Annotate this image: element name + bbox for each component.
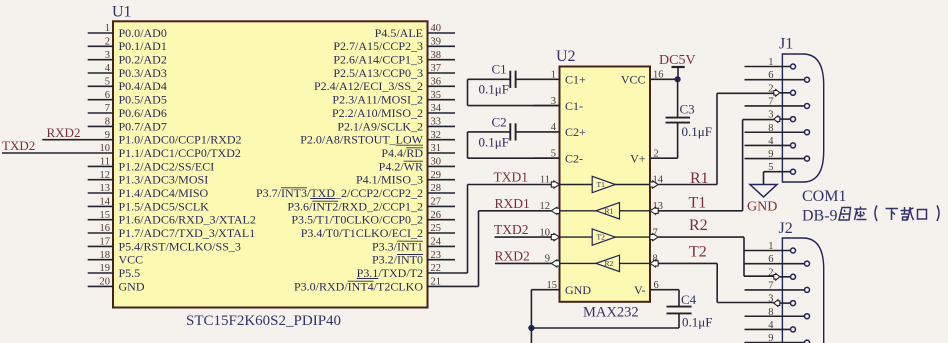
svg-text:P4.5/ALE: P4.5/ALE <box>375 26 423 40</box>
svg-text:1: 1 <box>768 241 773 252</box>
svg-text:2: 2 <box>768 267 773 278</box>
J2 pin 1 <box>745 250 791 252</box>
J1 pin 7 <box>745 105 805 107</box>
svg-text:24: 24 <box>431 237 442 248</box>
svg-text:P0.6/AD6: P0.6/AD6 <box>119 106 167 120</box>
U1 pin 20 (GND) <box>88 285 113 287</box>
svg-text:P0.4/AD4: P0.4/AD4 <box>119 79 167 93</box>
svg-text:15: 15 <box>100 210 111 221</box>
svg-text:P3.1/TXD/T2: P3.1/TXD/T2 <box>357 266 423 280</box>
svg-text:1: 1 <box>551 70 556 81</box>
J1 pin 8 <box>745 131 805 133</box>
svg-text:P5.5: P5.5 <box>119 266 141 280</box>
svg-text:38: 38 <box>431 50 442 61</box>
glyph fullwidth ) <box>937 206 939 222</box>
svg-text:C2+: C2+ <box>565 125 586 139</box>
glyph xia <box>886 209 899 221</box>
svg-text:P3.6/INT2/RXD_2/CCP1_2: P3.6/INT2/RXD_2/CCP1_2 <box>287 199 423 213</box>
U1 pin 25 <box>428 232 456 234</box>
svg-text:29: 29 <box>431 170 442 181</box>
U1 pin 34 <box>428 112 456 114</box>
svg-text:P3.4/T0/T1CLKO/ECI_2: P3.4/T0/T1CLKO/ECI_2 <box>301 226 423 240</box>
svg-text:4: 4 <box>768 320 774 331</box>
U1 pin 40 <box>428 32 456 34</box>
J2 pin 2 <box>780 276 791 278</box>
svg-text:RXD2: RXD2 <box>495 249 530 264</box>
U1 pin 10 (P1.1/ADC1/CCP0/TXD2) <box>2 152 113 154</box>
svg-text:GND: GND <box>747 200 777 215</box>
U1 pin 19 (P5.5) <box>88 272 113 274</box>
wire R1: U2 pin14 to J1 pin2 <box>658 184 717 186</box>
wire R2: U2 pin7 to J2 pin2 <box>658 236 744 238</box>
svg-text:P2.5/A13/CCP0_3: P2.5/A13/CCP0_3 <box>333 66 423 80</box>
svg-text:P2.0/A8/RSTOUT_LOW: P2.0/A8/RSTOUT_LOW <box>300 133 423 147</box>
J1 pin 9 <box>745 158 805 160</box>
svg-text:6: 6 <box>768 70 773 81</box>
capacitor C2 <box>468 131 511 133</box>
svg-text:4: 4 <box>551 122 557 133</box>
J1 pin 1 <box>745 66 791 68</box>
svg-text:31: 31 <box>431 143 442 154</box>
U1 pin 18 (VCC) <box>88 259 113 261</box>
wire TXD2 stub at U2 pin 10 <box>495 236 552 238</box>
U1 pin 33 <box>428 125 456 127</box>
svg-text:37: 37 <box>431 63 442 74</box>
svg-text:7: 7 <box>105 103 110 114</box>
svg-text:C1-: C1- <box>565 99 583 113</box>
svg-text:P1.2/ADC2/SS/ECI: P1.2/ADC2/SS/ECI <box>119 159 215 173</box>
J1 pin 5 <box>764 171 791 173</box>
U2 internal buffer T2 <box>560 236 651 238</box>
U1 pin 3 (P0.2/AD2) <box>88 59 113 61</box>
svg-text:P3.5/T1/T0CLKO/CCP0_2: P3.5/T1/T0CLKO/CCP0_2 <box>291 213 423 227</box>
U1 pin 9 (P1.0/ADC0/CCP1/RXD2) <box>42 139 113 141</box>
svg-text:V-: V- <box>634 283 646 297</box>
svg-text:7: 7 <box>768 280 773 291</box>
svg-text:P1.7/ADC7/TXD_3/XTAL1: P1.7/ADC7/TXD_3/XTAL1 <box>119 226 256 240</box>
svg-text:C1+: C1+ <box>565 73 586 87</box>
svg-text:5: 5 <box>768 162 773 173</box>
svg-text:6: 6 <box>105 90 110 101</box>
U1 pin 11 (P1.2/ADC2/SS/ECI) <box>88 165 113 167</box>
svg-text:25: 25 <box>431 223 442 234</box>
svg-text:6: 6 <box>768 254 773 265</box>
svg-text:C2: C2 <box>492 115 507 130</box>
U1 pin 13 (P1.4/ADC4/MISO) <box>88 192 113 194</box>
svg-text:34: 34 <box>431 103 442 114</box>
svg-text:COM1: COM1 <box>802 188 846 205</box>
glyph zuo <box>855 207 867 221</box>
svg-text:26: 26 <box>431 210 442 221</box>
U1 pin 38 <box>428 59 456 61</box>
svg-text:STC15F2K60S2_PDIP40: STC15F2K60S2_PDIP40 <box>186 313 341 329</box>
wire T1: U2 pin13 to J1 pin3 <box>658 210 742 212</box>
svg-text:RXD2: RXD2 <box>47 125 81 140</box>
power symbol DC5V <box>672 66 685 68</box>
svg-text:4: 4 <box>105 63 111 74</box>
svg-text:C2-: C2- <box>565 151 583 165</box>
U1 pin 23 <box>428 259 456 261</box>
svg-text:33: 33 <box>431 117 442 128</box>
svg-text:32: 32 <box>431 130 442 141</box>
U1 pin 8 (P0.7/AD7) <box>88 125 113 127</box>
U2 internal buffer R2 <box>560 262 651 264</box>
svg-text:19: 19 <box>100 263 111 274</box>
capacitor C3 <box>677 79 679 117</box>
U1 pin 26 <box>428 219 456 221</box>
svg-text:9: 9 <box>105 130 110 141</box>
svg-text:0.1μF: 0.1μF <box>682 124 712 139</box>
wire C2 loop <box>467 132 469 158</box>
wire C1 loop <box>467 79 469 105</box>
svg-text:P0.5/AD5: P0.5/AD5 <box>119 93 167 107</box>
wire TXD1: U1 pin 22 to U2 pin 11 <box>428 272 468 274</box>
svg-text:12: 12 <box>100 170 111 181</box>
J2 pin 7 <box>745 289 805 291</box>
svg-text:14: 14 <box>100 197 111 208</box>
svg-text:8: 8 <box>768 123 773 134</box>
J2 pin 4 <box>745 328 791 330</box>
U1 pin 32 <box>428 139 456 141</box>
svg-text:18: 18 <box>100 250 111 261</box>
glyph zai <box>901 207 914 220</box>
wire T2: U2 pin8 to J2 pin3 <box>658 262 717 264</box>
svg-text:20: 20 <box>100 277 111 288</box>
J1 pin 2 <box>780 92 791 94</box>
svg-text:P0.3/AD3: P0.3/AD3 <box>119 66 167 80</box>
svg-text:P0.0/AD0: P0.0/AD0 <box>119 26 167 40</box>
U1 pin 6 (P0.5/AD5) <box>88 99 113 101</box>
svg-text:DB-9: DB-9 <box>802 208 838 225</box>
svg-text:0.1μF: 0.1μF <box>479 82 509 97</box>
IC U2 MAX232 body <box>560 67 651 302</box>
J2 pin 8 <box>745 315 805 317</box>
svg-text:VCC: VCC <box>621 73 646 87</box>
svg-text:28: 28 <box>431 183 442 194</box>
svg-text:36: 36 <box>431 77 442 88</box>
U1 pin 28 <box>428 192 456 194</box>
U1 pin 15 (P1.6/ADC6/RXD_3/XTAL2) <box>88 219 113 221</box>
U1 pin 30 <box>428 165 456 167</box>
svg-text:39: 39 <box>431 37 442 48</box>
connector J1 DB-9 body <box>782 54 823 182</box>
U2 pin 4 <box>534 131 560 133</box>
U1 pin 7 (P0.6/AD6) <box>88 112 113 114</box>
svg-text:U2: U2 <box>556 48 576 65</box>
svg-text:P0.7/AD7: P0.7/AD7 <box>119 119 167 133</box>
J1 pin 3 <box>780 118 791 120</box>
svg-text:10: 10 <box>100 143 111 154</box>
svg-text:C3: C3 <box>680 102 695 117</box>
svg-text:3: 3 <box>768 110 773 121</box>
U1 pin 2 (P0.1/AD1) <box>88 45 113 47</box>
svg-text:TXD2: TXD2 <box>2 138 35 153</box>
svg-text:30: 30 <box>431 157 442 168</box>
svg-text:R2: R2 <box>605 259 614 268</box>
svg-text:MAX232: MAX232 <box>583 305 639 321</box>
svg-text:P5.4/RST/MCLKO/SS_3: P5.4/RST/MCLKO/SS_3 <box>119 239 241 253</box>
svg-text:4: 4 <box>768 136 774 147</box>
svg-text:P2.4/A12/ECI_3/SS_2: P2.4/A12/ECI_3/SS_2 <box>314 79 423 93</box>
svg-text:C4: C4 <box>681 292 697 307</box>
svg-text:3: 3 <box>105 50 110 61</box>
svg-text:5: 5 <box>105 77 110 88</box>
svg-text:9: 9 <box>768 333 773 343</box>
svg-text:P1.3/ADC3/MOSI: P1.3/ADC3/MOSI <box>119 173 209 187</box>
svg-text:T1: T1 <box>597 180 606 189</box>
svg-text:40: 40 <box>431 23 442 34</box>
svg-text:27: 27 <box>431 197 442 208</box>
svg-text:P2.2/A10/MISO_2: P2.2/A10/MISO_2 <box>332 106 423 120</box>
svg-text:P0.1/AD1: P0.1/AD1 <box>119 39 167 53</box>
svg-text:T1: T1 <box>689 195 707 212</box>
svg-text:7: 7 <box>768 96 773 107</box>
svg-text:J1: J1 <box>779 36 793 53</box>
svg-text:GND: GND <box>119 279 145 293</box>
svg-text:16: 16 <box>100 223 111 234</box>
svg-text:TXD1: TXD1 <box>494 170 529 185</box>
svg-text:P0.2/AD2: P0.2/AD2 <box>119 53 167 67</box>
svg-text:13: 13 <box>100 183 111 194</box>
wire U2 pin15 GND down <box>531 289 559 291</box>
svg-text:0.1μF: 0.1μF <box>479 135 509 150</box>
svg-text:35: 35 <box>431 90 442 101</box>
U1 pin 12 (P1.3/ADC3/MOSI) <box>88 179 113 181</box>
svg-text:U1: U1 <box>112 4 132 21</box>
svg-text:8: 8 <box>105 117 110 128</box>
svg-text:1: 1 <box>105 23 110 34</box>
capacitor C4 <box>650 289 679 291</box>
svg-text:VCC: VCC <box>119 253 144 267</box>
svg-text:P1.4/ADC4/MISO: P1.4/ADC4/MISO <box>119 186 209 200</box>
svg-text:17: 17 <box>100 237 111 248</box>
J1 pin 4 <box>745 144 791 146</box>
U2 internal buffer T1 <box>560 184 651 186</box>
glyph kou <box>918 210 927 220</box>
svg-text:R2: R2 <box>689 217 708 234</box>
svg-text:9: 9 <box>768 149 773 160</box>
glyph fullwidth ( <box>875 206 877 222</box>
U1 pin 27 <box>428 205 456 207</box>
svg-text:GND: GND <box>565 283 591 297</box>
wire RXD1: U1 pin 21 to U2 pin 12 <box>428 285 479 287</box>
U2 pin 3 <box>534 105 560 107</box>
IC U1 STC15F2K60S2_PDIP40 body <box>113 21 428 307</box>
J2 pin 3 <box>780 302 791 304</box>
U1 pin 4 (P0.3/AD3) <box>88 72 113 74</box>
svg-text:P1.6/ADC6/RXD_3/XTAL2: P1.6/ADC6/RXD_3/XTAL2 <box>119 213 256 227</box>
glyph mu <box>839 208 851 221</box>
svg-text:2: 2 <box>768 83 773 94</box>
U2 pin 1 <box>534 78 560 80</box>
U2 pin 5 <box>534 157 560 159</box>
svg-text:P4.1/MISO_3: P4.1/MISO_3 <box>356 173 423 187</box>
capacitor C1 <box>468 78 511 80</box>
U1 pin 39 <box>428 45 456 47</box>
svg-text:P2.3/A11/MOSI_2: P2.3/A11/MOSI_2 <box>332 93 423 107</box>
U1 pin 24 <box>428 245 456 247</box>
svg-text:0.1μF: 0.1μF <box>682 315 712 330</box>
J2 pin 6 <box>745 263 805 265</box>
U1 pin 5 (P0.4/AD4) <box>88 85 113 87</box>
U1 pin 14 (P1.5/ADC5/SCLK) <box>88 205 113 207</box>
svg-text:DC5V: DC5V <box>659 53 696 68</box>
svg-text:J2: J2 <box>779 220 793 237</box>
connector J2 DB-9 body <box>782 238 823 343</box>
wire GND rail to C4 <box>531 327 679 329</box>
U1 pin 35 <box>428 99 456 101</box>
wire RXD2 stub at U2 pin 9 <box>495 262 551 264</box>
svg-text:RXD1: RXD1 <box>495 196 530 211</box>
svg-text:8: 8 <box>768 307 773 318</box>
svg-text:P1.5/ADC5/SCLK: P1.5/ADC5/SCLK <box>119 199 210 213</box>
U1 pin 36 <box>428 85 456 87</box>
svg-text:TXD2: TXD2 <box>494 222 529 237</box>
svg-text:T2: T2 <box>689 244 707 261</box>
U2 internal buffer R1 <box>560 210 651 212</box>
svg-text:2: 2 <box>105 37 110 48</box>
wire U2 pin16 to DC5V <box>650 78 678 80</box>
svg-text:23: 23 <box>431 250 442 261</box>
svg-text:V+: V+ <box>630 151 646 165</box>
J2 pin 9 <box>745 342 805 343</box>
U1 pin 31 <box>428 152 456 154</box>
J1 pin 6 <box>745 79 805 81</box>
svg-text:3: 3 <box>768 294 773 305</box>
U1 pin 16 (P1.7/ADC7/TXD_3/XTAL1) <box>88 232 113 234</box>
U1 pin 37 <box>428 72 456 74</box>
junction node GND rail <box>528 325 534 331</box>
svg-text:P1.0/ADC0/CCP1/RXD2: P1.0/ADC0/CCP1/RXD2 <box>119 133 242 147</box>
junction node at DC5V/C3 <box>675 76 681 82</box>
svg-text:R1: R1 <box>605 206 614 215</box>
svg-text:P2.1/A9/SCLK_2: P2.1/A9/SCLK_2 <box>337 119 423 133</box>
U1 pin 29 <box>428 179 456 181</box>
svg-text:C1: C1 <box>492 62 507 77</box>
svg-text:P2.7/A15/CCP2_3: P2.7/A15/CCP2_3 <box>333 39 423 53</box>
svg-text:1: 1 <box>768 57 773 68</box>
wire J1 pin5 to GND <box>763 172 765 185</box>
svg-text:P2.6/A14/CCP1_3: P2.6/A14/CCP1_3 <box>333 53 423 67</box>
svg-text:11: 11 <box>100 157 110 168</box>
svg-text:P1.1/ADC1/CCP0/TXD2: P1.1/ADC1/CCP0/TXD2 <box>119 146 241 160</box>
U1 pin 1 (P0.0/AD0) <box>88 32 113 34</box>
U1 pin 17 (P5.4/RST/MCLKO/SS_3) <box>88 245 113 247</box>
ground symbol GND <box>750 185 777 198</box>
svg-text:T2: T2 <box>597 233 606 242</box>
